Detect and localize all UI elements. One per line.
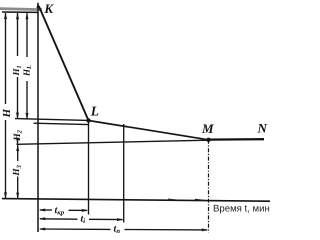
- label H1: [11, 65, 23, 76]
- svg-text:K: K: [43, 1, 54, 16]
- vertical axis H: [37, 3, 39, 232]
- curve K-L: [39, 6, 89, 121]
- axis arrowhead 1: [168, 199, 179, 201]
- label HL: [21, 65, 33, 77]
- node L: [86, 118, 90, 122]
- svg-text:N: N: [257, 120, 268, 135]
- svg-text:M: M: [201, 121, 214, 136]
- dimension H2 arrow: [16, 138, 19, 144]
- svg-text:H: H: [1, 108, 13, 118]
- curve M-N: [209, 138, 265, 141]
- axis arrowhead 2: [195, 199, 208, 201]
- M level line: [17, 140, 209, 144]
- dimension t_p: [40, 228, 111, 230]
- dimension t_i: [40, 218, 78, 220]
- top reference line: [2, 11, 39, 13]
- curve L-M: [89, 121, 209, 140]
- second level line: [34, 123, 89, 124]
- node M: [206, 138, 210, 142]
- vertical t_i boundary: [123, 124, 125, 223]
- label H3: [12, 164, 23, 176]
- dimension H1 line: [17, 13, 19, 56]
- axis top arrowhead: [37, 2, 40, 9]
- dimension H line: [5, 13, 7, 104]
- top smudge band: [0, 9, 42, 10]
- label H2: [12, 129, 24, 141]
- dimension t_kr: [40, 209, 52, 211]
- vertical below L: [88, 121, 90, 215]
- x-axis (Время): [2, 199, 270, 202]
- dimension H3 line: [17, 145, 19, 161]
- svg-text:L: L: [90, 103, 99, 118]
- L level line: [15, 119, 89, 121]
- svg-text:Время t, мин: Время t, мин: [213, 203, 270, 214]
- vertical below M (dash-dot): [208, 140, 210, 233]
- dimension HL line: [26, 13, 28, 57]
